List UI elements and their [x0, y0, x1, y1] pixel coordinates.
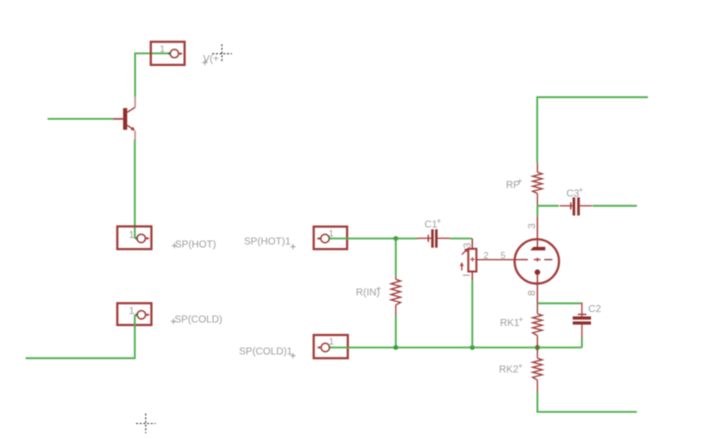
wire base of Q1 [48, 118, 114, 120]
wire SP(HOT)1 to C1 [329, 238, 417, 240]
origin cross (bottom) [136, 414, 156, 434]
origin cross of SP(COLD)1 label [290, 353, 295, 358]
junction node C [470, 345, 475, 350]
wire collector to connector J1 [135, 53, 170, 96]
tube V1 grid (dashed) [521, 258, 553, 262]
wire node8 to C2 [537, 302, 582, 304]
svg-text:1: 1 [160, 44, 165, 54]
capacitor C1 [417, 229, 450, 247]
connector J1 box [151, 42, 185, 65]
svg-text:5: 5 [501, 251, 506, 261]
svg-text:SP(HOT)1: SP(HOT)1 [244, 237, 291, 248]
origin cross of J1 part [212, 44, 232, 62]
capacitor C3 [560, 197, 593, 215]
wire bottom net SP(COLD)1 to C2 [330, 347, 583, 349]
svg-text:3: 3 [527, 223, 538, 229]
svg-text:RK2: RK2 [499, 365, 519, 376]
svg-text:RK1: RK1 [500, 318, 520, 329]
svg-text:8: 8 [527, 290, 538, 296]
tube pin 3 wire [536, 206, 538, 217]
wire C3 to right [593, 205, 637, 207]
connector J1 pin circle [168, 49, 183, 57]
small cross of V(+ text [202, 60, 207, 65]
connector SP(COLD)1 box [314, 335, 348, 358]
junction node A [393, 236, 398, 241]
wire SP(COLD) pin down and left [26, 315, 135, 358]
svg-text:1: 1 [129, 230, 135, 241]
svg-text:SP(COLD)1: SP(COLD)1 [239, 346, 293, 357]
wire emitter down to SP(HOT) pin [134, 139, 136, 238]
wire R(IN) top [395, 239, 397, 277]
svg-text:SP(HOT): SP(HOT) [175, 239, 216, 250]
svg-text:+: + [518, 361, 523, 370]
origin cross of SP(COLD) label [171, 319, 176, 324]
svg-text:1: 1 [329, 229, 334, 239]
transistor Q1 [113, 97, 135, 140]
svg-text:+: + [437, 217, 442, 226]
tube V1 pin 3 lead [536, 216, 538, 247]
junction node B [393, 345, 398, 350]
connector SP(HOT)1 pin circle (mirrored) [317, 234, 329, 242]
svg-text:+: + [519, 315, 524, 324]
svg-text:+: + [518, 176, 523, 185]
node SP(COLD)1 pin connection [329, 346, 331, 348]
connector SP(COLD) box [117, 303, 151, 325]
resistor RK1 [533, 303, 543, 347]
svg-text:+: + [579, 185, 584, 194]
connector SP(COLD)1 pin circle (mirrored) [317, 343, 329, 351]
svg-text:3: 3 [462, 242, 473, 248]
wire C1 to pot [450, 238, 472, 240]
resistor RP [533, 163, 543, 206]
tube V1 envelope [515, 239, 559, 283]
trimmer RV1 [460, 239, 477, 281]
tube V1 anode plate [530, 247, 545, 251]
wiper tap / grid pin wire [476, 259, 520, 261]
svg-text:C2: C2 [588, 304, 601, 315]
resistor R(IN) [391, 276, 401, 316]
connector SP(COLD) pin circle [135, 311, 149, 319]
connector SP(HOT) pin circle [135, 234, 149, 242]
wire RK2 bottom rail [537, 392, 637, 412]
mid rail wire [537, 205, 559, 207]
node SP(HOT)1 pin connection [328, 237, 330, 239]
resistor RK2 [533, 348, 543, 392]
junction node D [535, 345, 540, 350]
tube V1 cathode [535, 269, 541, 275]
wire R(IN) bottom [395, 316, 397, 348]
connector SP(HOT) box [117, 226, 151, 249]
capacitor C2 [573, 303, 591, 338]
svg-text:V(+: V(+ [203, 54, 219, 65]
svg-text:+: + [377, 284, 382, 293]
svg-text:2: 2 [484, 251, 489, 261]
top rail wire [537, 97, 648, 162]
origin cross of SP(HOT) label [172, 243, 177, 248]
wire C2 bottom [581, 338, 583, 348]
svg-text:SP(COLD): SP(COLD) [175, 314, 223, 325]
wire pot bottom [471, 280, 473, 348]
pin number 1 of trimmer (rotated) [463, 274, 470, 276]
tube V1 pin 8 lead [536, 275, 538, 304]
origin cross of SP(HOT)1 label [290, 244, 295, 249]
svg-text:1: 1 [329, 337, 334, 347]
connector SP(HOT)1 box [314, 227, 347, 250]
